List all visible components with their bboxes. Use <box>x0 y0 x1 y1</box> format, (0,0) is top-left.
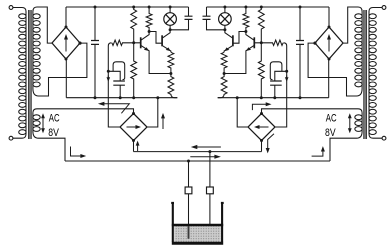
node B1 bottom <box>65 58 68 61</box>
AC 8V measure arrow (right) <box>349 117 351 130</box>
svg-text:8V: 8V <box>48 127 59 139</box>
node electrode 2 / upper rail <box>208 150 211 153</box>
current arrow I (bent, right transformer bottom, pointing up) <box>312 151 323 156</box>
lower center rail <box>65 160 330 162</box>
transformer T1 secondary winding (upper section) <box>32 12 34 89</box>
svg-text:AC: AC <box>326 113 337 125</box>
current arrow C (up, left bridge bottom) <box>137 144 139 151</box>
transistor Q1 emitter <box>141 46 171 74</box>
resistor R1 (upper bias) <box>131 7 137 43</box>
node top rail / C1 <box>94 6 97 9</box>
wire secondary tap to bridge right vertex <box>33 43 87 96</box>
transformer T1 8V winding (lower section) <box>32 113 34 132</box>
node B1 top <box>65 26 68 29</box>
current arrow F (center, pointing right) <box>190 156 215 158</box>
wire B2 right vertex to mid rail <box>147 98 158 127</box>
node Q1 collector <box>148 30 151 33</box>
wire mid rail <box>66 97 177 99</box>
capacitor C2 plates <box>113 81 125 85</box>
arrow inside B2 <box>127 126 138 128</box>
wire 8V winding top to node line-B <box>33 109 134 114</box>
Q1 emitter arrowhead <box>144 47 149 51</box>
beaker bottom <box>172 242 223 245</box>
capacitor C1 plates <box>91 41 99 45</box>
resistor R5 (emitter) <box>168 52 174 73</box>
current arrow on feed wire <box>107 76 109 79</box>
wire <box>13 134 26 138</box>
node R3/R1/R2 <box>132 41 135 44</box>
wire secondary top to bridge left vertex <box>33 7 52 43</box>
wire B2 bottom to upper center rail <box>133 141 135 152</box>
resistor R4 (Q1 collector) <box>146 7 152 32</box>
transistor Q2 base bar <box>161 35 163 46</box>
capacitor C3 top lead from rail <box>188 7 190 16</box>
node top rail / R1 <box>132 6 135 9</box>
node lamp / C3 / Q2 collector <box>169 28 172 31</box>
svg-text:8V: 8V <box>325 127 336 139</box>
wire B1 top to top rail <box>65 7 67 27</box>
wire B1 bottom to mid rail <box>65 59 67 98</box>
node mid rail / C2 <box>119 96 122 99</box>
electrode 2 wire <box>209 152 211 225</box>
resistor R2 (lower bias) <box>131 43 137 98</box>
node top rail / R4 <box>148 6 151 9</box>
transistor Q2 emitter <box>163 46 171 53</box>
capacitor C2 shell <box>113 62 125 80</box>
transformer T1 core <box>29 10 32 139</box>
current arrow H (bent, right bridge, pointing down) <box>268 134 274 149</box>
node B2 top <box>132 112 135 115</box>
node emitter junction <box>169 72 172 75</box>
current arrow E (center, pointing left) <box>196 146 221 148</box>
lamp L1 top lead <box>169 7 171 13</box>
capacitor C2 bottom lead <box>119 85 121 98</box>
capacitor C2 top wire <box>108 71 120 81</box>
node mid rail / C1 <box>94 96 97 99</box>
resistor R3 (base feed) <box>112 40 140 45</box>
node top rail / lamp <box>169 6 172 9</box>
lamp L1 bottom lead <box>169 25 171 30</box>
node C2 top <box>107 70 110 73</box>
node mid rail / R2 <box>132 96 135 99</box>
bridge rectifier B2 (lower) <box>120 114 147 141</box>
node B1 right <box>78 42 81 45</box>
electrode 1 submerged part <box>188 226 190 239</box>
arrow inside B1 <box>65 38 67 52</box>
resistor R6 <box>168 74 177 98</box>
wire <box>13 8 26 12</box>
current arrow G (bent, right side, pointing right) <box>252 104 266 110</box>
capacitor C1 (filter) top lead <box>94 7 96 41</box>
capacitor C1 bottom lead <box>94 44 96 97</box>
transformer T1 primary terminal (bottom) <box>9 136 13 140</box>
wire 8V winding bottom to lower rail <box>33 132 65 162</box>
transistor Q1 collector <box>141 32 149 40</box>
capacitor C3 bottom lead <box>170 19 188 29</box>
node electrode 1 / lower rail <box>187 160 190 163</box>
transformer T1 primary terminal (top) <box>9 6 13 10</box>
svg-text:AC: AC <box>49 113 60 125</box>
current arrow D (bent, left transformer bottom) <box>71 147 82 157</box>
wire top rail <box>66 6 189 8</box>
transistor Q2 collector <box>163 30 170 38</box>
electrode 1 connector square <box>185 187 192 194</box>
wire Q1 collector to Q2 base <box>149 32 162 44</box>
beaker walls <box>171 203 224 242</box>
beaker liquid <box>174 226 221 243</box>
transformer T1 primary winding <box>25 12 27 135</box>
upper center rail <box>134 151 262 153</box>
node mid rail / B2 right <box>156 96 159 99</box>
current arrow B (up, left bridge right side) <box>162 118 164 130</box>
electrode 2 connector square <box>207 187 214 194</box>
AC 8V measure arrow (left) <box>42 117 44 130</box>
lamp L1 <box>164 13 177 26</box>
electrode 1 wire <box>188 161 190 239</box>
node B2 bottom <box>132 139 135 142</box>
Q2 emitter arrowhead <box>166 47 171 51</box>
right half circuit (mirrored copy) <box>203 6 386 162</box>
current arrow A (left, pointing left) <box>103 104 129 114</box>
bridge rectifier B1 <box>52 27 80 59</box>
capacitor C3 plates <box>185 16 193 19</box>
label AC 8V (left) <box>48 113 336 139</box>
wire DC feed vertical (R3 to lower bridge left vertex) <box>108 43 120 127</box>
liquid surface line <box>172 224 223 227</box>
transistor Q1 base bar <box>140 37 142 48</box>
